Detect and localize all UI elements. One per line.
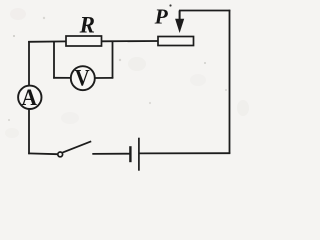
wire right vertical	[229, 10, 231, 154]
paper smudge	[61, 112, 79, 124]
battery long plate	[138, 138, 140, 171]
speck	[8, 119, 10, 121]
svg-text:R: R	[79, 12, 95, 37]
speck	[43, 17, 45, 19]
svg-text:V: V	[75, 64, 90, 91]
svg-text:P: P	[154, 4, 169, 28]
paper smudge	[128, 57, 146, 71]
wire bottom left horizontal	[28, 152, 57, 155]
wire voltmeter branch right horizontal	[95, 77, 114, 79]
svg-text:A: A	[21, 84, 36, 110]
speck	[169, 4, 171, 6]
paper smudge	[190, 74, 206, 86]
rheostat P box	[158, 37, 194, 46]
speck	[204, 62, 206, 64]
resistor R box	[66, 36, 102, 46]
wire bottom right horizontal	[139, 152, 230, 154]
label V	[75, 64, 90, 91]
speck	[225, 89, 227, 91]
speck	[13, 35, 15, 37]
ammeter A circle	[18, 86, 41, 109]
paper smudge	[10, 8, 26, 20]
paper smudge	[237, 100, 249, 116]
wire voltmeter branch left horizontal	[53, 77, 71, 79]
rheostat slider arrowhead	[175, 19, 184, 33]
speck	[149, 102, 151, 104]
wire left vertical lower	[28, 109, 30, 154]
wire top left horizontal	[28, 40, 67, 42]
voltmeter V circle	[71, 66, 95, 90]
wire top right horizontal	[179, 10, 230, 12]
rheostat slider stem	[179, 11, 181, 22]
paper smudge	[5, 128, 19, 138]
switch lever	[63, 141, 92, 152]
wire left vertical upper	[28, 41, 30, 85]
wire battery to switch	[92, 153, 129, 155]
wire voltmeter branch right vertical	[112, 41, 114, 78]
wire voltmeter branch left vertical	[53, 41, 55, 78]
battery short plate	[129, 146, 131, 162]
speck	[119, 59, 121, 61]
wire top middle horizontal	[102, 40, 160, 42]
label P	[154, 4, 169, 28]
label R	[79, 12, 95, 37]
label A	[21, 84, 36, 110]
switch pivot	[58, 152, 63, 157]
